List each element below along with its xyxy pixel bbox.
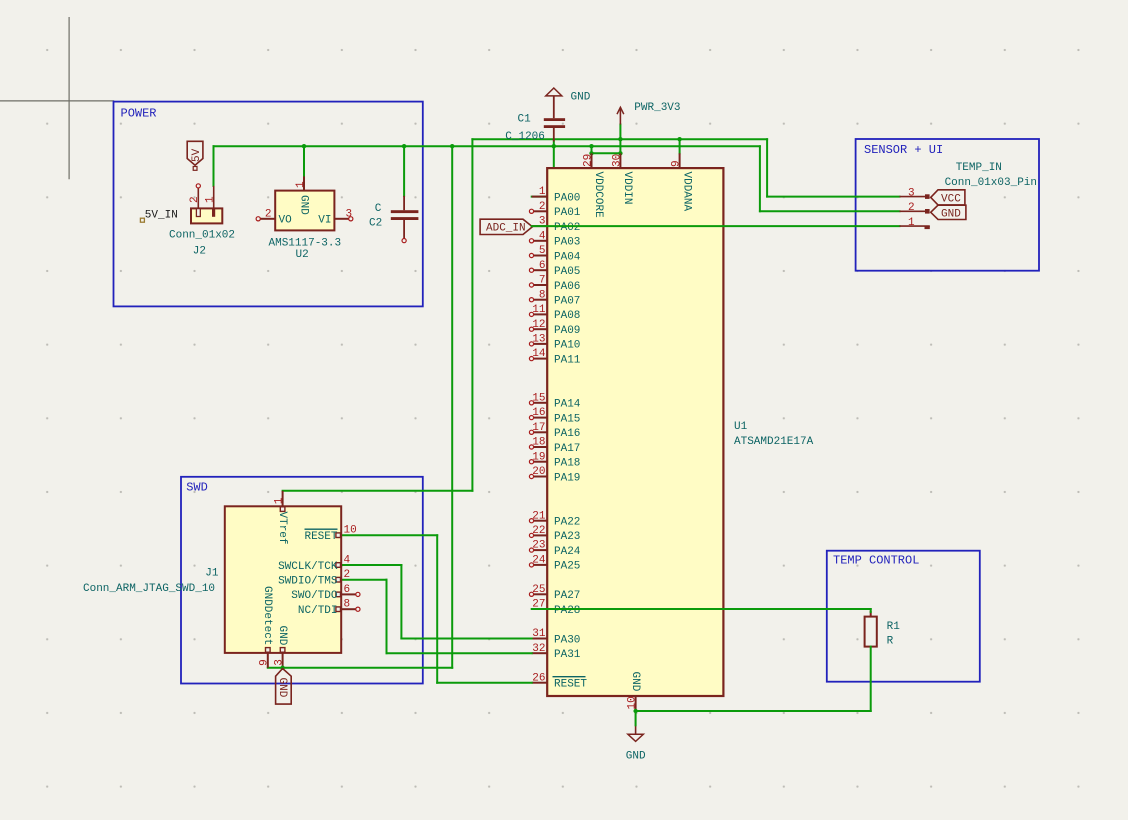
svg-text:10: 10 [344,525,357,537]
pin 10 U1 (GND) [627,672,642,712]
svg-text:PA04: PA04 [554,251,581,263]
wire J1 GND [268,667,452,669]
svg-text:26: 26 [532,672,545,684]
svg-text:GND: GND [276,626,288,646]
svg-text:VCC: VCC [941,194,961,206]
svg-text:R: R [887,635,894,647]
svg-text:VDDANA: VDDANA [680,172,692,212]
junction [450,144,454,148]
wire SWCLK [341,564,402,566]
power symbol PWR_3V3 [617,107,624,124]
wire J1 RESET [341,534,437,536]
sheet SWD [181,477,423,684]
pin 4 U1 (PA03) [529,230,580,248]
wire SWDIO column [386,580,388,654]
svg-text:NC/TDI: NC/TDI [298,605,338,617]
power flag GND (SWD) [276,669,292,705]
pin 7 U1 (PA06) [529,275,580,293]
svg-text:22: 22 [532,525,545,537]
svg-text:PA14: PA14 [554,399,581,411]
svg-text:U2: U2 [296,249,309,261]
pin 12 U1 (PA09) [529,319,580,337]
junction [302,144,306,148]
svg-text:3: 3 [274,659,286,666]
wire PA00 stub link [532,196,554,198]
svg-text:SWO/TDO: SWO/TDO [291,590,338,602]
svg-text:VTref: VTref [276,512,288,545]
svg-text:SWD: SWD [186,481,208,495]
wire to sensor GND [759,146,761,211]
svg-text:GND: GND [941,208,961,220]
svg-text:PA30: PA30 [554,634,580,646]
svg-text:PA31: PA31 [554,649,581,661]
wire VDDCORE riser [591,146,593,153]
hierarchical pin square 5V_IN [140,218,144,222]
pin 6 U1 (PA05) [529,260,580,278]
svg-text:PA10: PA10 [554,340,580,352]
wire SWCLK column [400,565,402,639]
pin 8 J1 (NC/TDI) [298,599,360,617]
pin 9 U1 (VDDANA) [671,153,693,211]
svg-text:PA05: PA05 [554,266,580,278]
hierarchical label ADC_IN [480,219,532,235]
pin 30 U1 (VDDIN) [611,153,633,204]
pin 16 U1 (PA15) [529,407,580,425]
svg-text:9: 9 [671,160,683,167]
junction [280,666,284,670]
pin 1 TEMP_IN [900,217,930,229]
cursor crosshair [0,17,114,179]
svg-text:18: 18 [532,437,545,449]
svg-text:3: 3 [346,208,353,220]
pin 8 U1 (PA07) [529,289,580,307]
svg-text:7: 7 [539,275,546,287]
svg-text:PA15: PA15 [554,413,580,425]
svg-text:25: 25 [532,584,545,596]
wire junction to ground [635,711,637,726]
svg-text:2: 2 [344,569,351,581]
svg-text:J2: J2 [193,245,206,257]
svg-text:PA00: PA00 [554,192,580,204]
svg-text:31: 31 [532,628,546,640]
wire VTref column [471,139,473,491]
capacitor C2 [391,196,419,243]
connector J2 [191,184,222,224]
svg-text:10: 10 [627,696,639,709]
resistor R1 [865,611,877,647]
svg-text:SWCLK/TCK: SWCLK/TCK [278,561,338,573]
pin 1 U2 (GND) [303,176,305,190]
pin 26 U1 (RESET) [532,672,588,690]
pin 2 U2 (VO) [256,217,275,221]
svg-text:PA11: PA11 [554,354,581,366]
pin 32 U1 (PA31) [532,643,581,661]
svg-text:PA22: PA22 [554,517,580,529]
svg-text:23: 23 [532,540,545,552]
svg-text:15: 15 [532,392,545,404]
svg-text:4: 4 [539,230,546,242]
wire R1 to GND [870,647,872,711]
junction [589,144,593,148]
svg-text:GND: GND [629,672,641,692]
svg-text:POWER: POWER [121,107,157,121]
svg-text:RESET: RESET [554,679,587,691]
pin 19 U1 (PA18) [529,451,580,469]
svg-text:PA01: PA01 [554,207,581,219]
svg-text:9: 9 [259,659,271,666]
wire 3V3 rail (lower) [214,145,760,147]
svg-text:PA02: PA02 [554,222,580,234]
junction [552,144,556,148]
pin 14 U1 (PA11) [529,348,580,366]
svg-text:1: 1 [295,181,307,188]
pin 13 U1 (PA10) [529,334,580,352]
svg-text:2: 2 [539,201,546,213]
svg-text:12: 12 [532,319,545,331]
wire sensor VCC [767,196,899,198]
ground symbol (bottom) [628,711,643,741]
sheet TEMP CONTROL [827,551,980,682]
power flag 5V [187,141,203,170]
svg-text:PA18: PA18 [554,458,580,470]
pin 17 U1 (PA16) [529,422,580,440]
wire RESET column [436,535,438,683]
svg-text:PA28: PA28 [554,605,580,617]
pin 1 J1 (VTref) [274,491,289,545]
svg-text:24: 24 [532,555,546,567]
svg-text:13: 13 [532,334,545,346]
svg-text:29: 29 [583,154,595,167]
pin 9 J1 (GNDDetect) [259,586,274,668]
svg-text:3: 3 [908,187,915,199]
sheet POWER [114,102,423,307]
pin 4 J1 (SWCLK/TCK) [278,554,350,572]
svg-text:PA23: PA23 [554,531,580,543]
pin 10 J1 (RESET) [304,525,356,543]
svg-text:PWR_3V3: PWR_3V3 [634,102,680,114]
pin 21 U1 (PA22) [529,510,580,528]
pin 2 J1 (SWDIO/TMS) [278,569,350,587]
wire PA31 [387,652,532,654]
wire VDDANA riser [679,139,681,153]
pin 2 U1 (PA01) [529,201,580,219]
svg-text:17: 17 [532,422,545,434]
svg-text:4: 4 [344,554,351,566]
junction [677,137,681,141]
pin 23 U1 (PA24) [529,540,580,558]
svg-text:PA09: PA09 [554,325,580,337]
pin 22 U1 (PA23) [529,525,580,543]
wire PA28 to R1 [532,608,871,610]
junction [402,144,406,148]
svg-text:C: C [375,203,382,215]
pin 15 U1 (PA14) [529,392,580,410]
wire SWDIO [341,579,387,581]
pin 25 U1 (PA27) [529,584,580,602]
svg-text:PA25: PA25 [554,561,580,573]
svg-text:1: 1 [274,497,286,504]
svg-text:C1: C1 [517,113,531,125]
svg-text:GND: GND [626,750,646,762]
svg-text:PA07: PA07 [554,296,580,308]
svg-text:6: 6 [539,260,546,272]
wire VDDCORE-VDDIN link [592,152,621,154]
pin 6 J1 (SWO/TDO) [291,584,360,602]
svg-text:PA08: PA08 [554,310,580,322]
wire PA30 [401,638,531,640]
regulator U2 AMS1117-3.3 [275,191,334,231]
connector J1 body [225,506,341,653]
pin 3 TEMP_IN (VCC) [900,187,965,205]
svg-text:21: 21 [532,510,546,522]
pin 24 U1 (PA25) [529,555,580,573]
svg-text:2: 2 [189,196,201,203]
svg-text:30: 30 [611,154,623,167]
svg-text:6: 6 [344,584,351,596]
pin 20 U1 (PA19) [529,466,580,484]
svg-text:1: 1 [539,186,546,198]
svg-text:11: 11 [532,304,546,316]
svg-text:2: 2 [908,202,915,214]
svg-text:PA17: PA17 [554,443,580,455]
svg-text:14: 14 [532,348,546,360]
pin 29 U1 (VDDCORE) [583,153,605,218]
junction [633,709,637,713]
pin 27 U1 (PA28) [532,599,581,617]
svg-text:Conn_ARM_JTAG_SWD_10: Conn_ARM_JTAG_SWD_10 [83,583,215,595]
svg-text:PA19: PA19 [554,472,580,484]
ground symbol (top) [546,88,562,96]
svg-text:PA27: PA27 [554,590,580,602]
pin 31 U1 (PA30) [532,628,581,646]
svg-text:GND: GND [571,91,591,103]
svg-text:PA06: PA06 [554,281,580,293]
wire VTref [283,490,473,492]
svg-text:TEMP_IN: TEMP_IN [956,162,1002,174]
svg-text:TEMP CONTROL: TEMP CONTROL [833,554,919,568]
svg-text:GND: GND [276,678,288,698]
wire PWR_3V3 riser [619,125,621,154]
svg-text:32: 32 [532,643,545,655]
svg-text:20: 20 [532,466,545,478]
junction [618,137,622,141]
svg-text:VDDCORE: VDDCORE [592,172,604,219]
svg-text:GND: GND [297,195,309,215]
svg-text:2: 2 [265,208,272,220]
svg-text:PA03: PA03 [554,237,580,249]
wire GND column [451,146,453,668]
pin 18 U1 (PA17) [529,437,580,455]
svg-text:SENSOR + UI: SENSOR + UI [864,143,943,157]
junction [589,151,593,155]
pin 3 U2 (VI) [334,217,353,221]
junction [618,151,622,155]
svg-text:VO: VO [279,215,293,227]
svg-text:AMS1117-3.3: AMS1117-3.3 [269,237,342,249]
pin 3 U1 (PA02) [532,216,581,234]
pin 11 U1 (PA08) [529,304,580,322]
wire J2 pin1 riser [213,146,215,186]
MCU U1 body [547,168,723,696]
svg-text:8: 8 [344,599,351,611]
svg-text:VDDIN: VDDIN [621,172,633,205]
svg-text:Conn_01x02: Conn_01x02 [169,230,235,242]
wire sensor GND [760,210,900,212]
svg-text:19: 19 [532,451,545,463]
pin 2 TEMP_IN (GND) [900,202,966,220]
svg-text:5V_IN: 5V_IN [145,209,178,221]
svg-text:ADC_IN: ADC_IN [486,223,526,235]
sheet SENSOR + UI [856,139,1039,271]
svg-text:PA16: PA16 [554,428,580,440]
wire ADC_IN to sensor pin1 [532,225,900,227]
svg-text:1: 1 [205,196,217,203]
wire to sensor VCC [766,139,768,196]
svg-text:VI: VI [318,215,331,227]
pin 1 U1 (PA00) [532,186,581,204]
wire GND bottom [636,710,871,712]
svg-text:5: 5 [539,245,546,257]
svg-text:J1: J1 [205,568,219,580]
wire C2 riser [403,146,405,196]
capacitor C1 [544,96,565,142]
wire PA28 drop [870,609,872,612]
wire C1 to PA00 [553,141,555,196]
svg-text:8: 8 [539,289,546,301]
svg-text:PA24: PA24 [554,546,581,558]
svg-text:Conn_01x03_Pin: Conn_01x03_Pin [945,177,1037,189]
svg-text:SWDIO/TMS: SWDIO/TMS [278,576,338,588]
svg-text:ATSAMD21E17A: ATSAMD21E17A [734,436,814,448]
svg-text:U1: U1 [734,421,748,433]
wire U2 GND riser [303,146,305,176]
pin 5 U1 (PA04) [529,245,580,263]
svg-text:RESET: RESET [304,531,337,543]
svg-text:5V: 5V [191,148,203,162]
pin 3 J1 (GND) [274,626,289,668]
svg-text:GNDDetect: GNDDetect [261,586,273,645]
svg-text:16: 16 [532,407,545,419]
svg-text:R1: R1 [887,621,901,633]
wire RESET to U1 [437,682,532,684]
svg-text:C2: C2 [369,217,382,229]
svg-text:C_1206: C_1206 [505,131,545,143]
wire 3V3 rail (upper) [472,138,767,140]
svg-text:1: 1 [908,217,915,229]
